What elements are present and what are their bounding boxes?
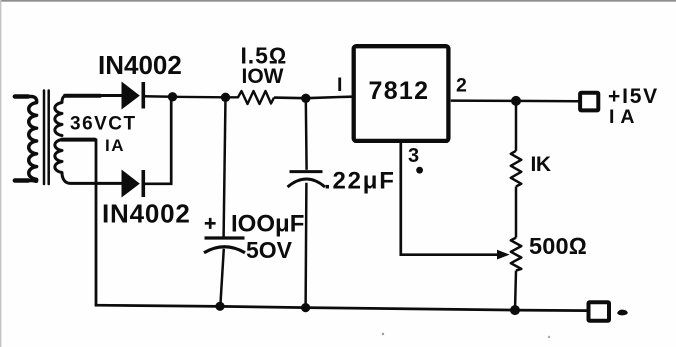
svg-text:I: I xyxy=(337,74,342,96)
capacitor C2 .22uF top plate xyxy=(290,170,323,173)
polarity plus sign xyxy=(205,218,216,229)
svg-text:IOW: IOW xyxy=(242,65,284,88)
svg-text:IN4002: IN4002 xyxy=(98,50,182,80)
transformer T1 primary winding xyxy=(15,97,37,182)
node E junction dot xyxy=(215,302,224,311)
wire center tap horizontal xyxy=(62,138,95,142)
diode D2 cathode bar xyxy=(142,170,146,197)
node B junction dot xyxy=(221,93,230,102)
capacitor C1 100uF top plate xyxy=(205,236,245,239)
resistor R1 1.5 ohm zigzag xyxy=(226,91,275,104)
wire pin 2 to +15V terminal xyxy=(451,99,579,102)
svg-text:2: 2 xyxy=(456,75,467,97)
wiper arrowhead xyxy=(497,250,510,260)
svg-text:500Ω: 500Ω xyxy=(529,233,587,259)
svg-text:IK: IK xyxy=(531,153,551,176)
wire node A to node B xyxy=(173,96,226,99)
resistor R2 1K zigzag xyxy=(511,151,522,187)
node A junction dot xyxy=(168,92,177,101)
wire .22uF cap top lead xyxy=(305,98,308,170)
scan edge left xyxy=(0,0,1,347)
terminal negative square xyxy=(589,302,610,321)
svg-text:IN4002: IN4002 xyxy=(102,199,191,229)
node C junction dot xyxy=(301,94,310,103)
wire R1 to pin 1 of U1 xyxy=(274,97,352,99)
wire pin 3 down and right to wiper xyxy=(401,142,498,255)
terminal +15V square xyxy=(580,93,598,111)
ground rail xyxy=(95,305,587,310)
svg-text:3: 3 xyxy=(408,145,419,167)
wire R2 to potentiometer R3 xyxy=(515,187,518,238)
svg-text:7812: 7812 xyxy=(369,77,430,105)
potentiometer R3 500 ohm zigzag xyxy=(511,238,522,271)
node F junction dot xyxy=(301,303,310,312)
wire node D down to R2 xyxy=(515,101,518,151)
diode D1 IN4002 triangle xyxy=(122,82,140,110)
wire .22uF cap bottom lead xyxy=(304,183,307,308)
speck 1 xyxy=(382,333,384,335)
wire 100uF cap top lead xyxy=(224,97,226,236)
speck 2 xyxy=(548,336,550,338)
svg-text:IA: IA xyxy=(105,136,125,155)
wire R3 bottom to ground rail xyxy=(515,271,516,311)
transformer T1 secondary winding lower half + wire to D2 anode xyxy=(55,140,122,184)
wire D2 cathode up to node A xyxy=(143,97,171,184)
regulator U1 7812 box xyxy=(354,46,449,141)
negative mark xyxy=(618,310,627,315)
svg-text:IA: IA xyxy=(609,106,641,128)
svg-text:5OV: 5OV xyxy=(246,237,293,263)
wire D1 cathode to node A xyxy=(143,95,173,98)
wire primary lead stubs xyxy=(15,97,28,181)
node D junction dot xyxy=(511,96,521,106)
wire 100uF cap bottom lead xyxy=(220,249,224,306)
svg-text:IOOμF: IOOμF xyxy=(231,210,304,237)
node G junction dot xyxy=(510,305,520,315)
svg-text:+I5V: +I5V xyxy=(608,85,659,108)
transformer T1 core xyxy=(44,91,49,185)
diode D1 cathode bar xyxy=(142,82,146,109)
transformer T1 secondary winding upper half + wire to D1 anode xyxy=(55,96,122,136)
svg-text:.22μF: .22μF xyxy=(324,168,396,195)
stray dot below pin 3 xyxy=(416,167,423,174)
diode D2 IN4002 triangle xyxy=(122,170,140,198)
scan edge top xyxy=(0,0,676,2)
wire center tap vertical down to ground rail xyxy=(95,140,98,306)
capacitor C2 .22uF curved plate xyxy=(288,179,326,187)
svg-text:36VCT: 36VCT xyxy=(70,114,137,135)
wire secondary top stub xyxy=(65,94,100,98)
capacitor C1 100uF curved plate xyxy=(204,247,245,253)
